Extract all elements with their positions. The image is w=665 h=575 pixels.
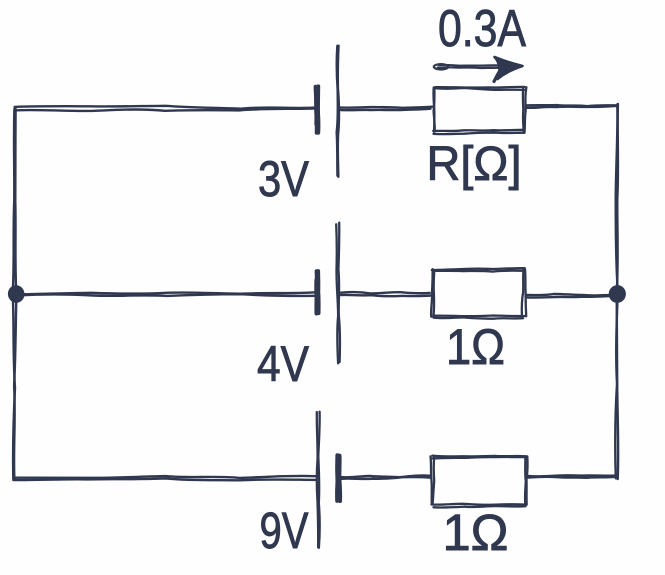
svg-text:R[Ω]: R[Ω]: [427, 138, 522, 191]
wire: top branch, battery V1 to resistor R1: [339, 107, 432, 111]
wire: top branch, left segment: [15, 106, 317, 111]
current direction arrow for I = 0.3 A: [434, 57, 523, 82]
resistor R1 body (rectangle): [433, 87, 526, 134]
wire: middle branch, battery V2 to resistor R2: [340, 292, 432, 296]
label: resistor R3 value 1&#937;: [443, 504, 509, 561]
resistor R3 body (rectangle): [431, 456, 528, 508]
junction node: left (left rail joins middle branch): [7, 284, 26, 304]
wire: bottom branch, battery V3 to resistor R3: [341, 475, 431, 479]
wire: bottom branch, left rail to battery V3: [13, 476, 316, 480]
wire: top branch, resistor R1 to right rail: [526, 105, 618, 108]
resistor R2 body (rectangle): [431, 268, 526, 319]
junction node: right (right rail joins middle branch): [608, 284, 627, 304]
svg-text:9V: 9V: [260, 502, 309, 559]
label: battery V3 value 9V: [260, 502, 309, 559]
svg-text:0.3A: 0.3A: [438, 0, 526, 58]
svg-text:1Ω: 1Ω: [443, 504, 509, 561]
svg-text:1Ω: 1Ω: [446, 319, 505, 375]
wire: middle branch, left node to battery V2: [17, 292, 316, 296]
label: resistor R1 value R[&#937;]: [427, 138, 522, 191]
label: battery V2 value 4V: [257, 336, 310, 392]
wire: left rail (top-left corner to bottom-left corner): [13, 109, 17, 480]
label: current value 0.3A: [438, 0, 526, 58]
label: battery V1 value 3V: [258, 151, 310, 207]
battery V2 (4V): short thick plate (left) and long thin plate (right): [316, 223, 340, 364]
label: resistor R2 value 1&#937;: [446, 319, 505, 375]
svg-text:3V: 3V: [258, 151, 310, 207]
wire: middle branch, resistor R2 to right node: [526, 294, 611, 298]
wire: bottom branch, resistor R3 to right rail: [528, 475, 617, 478]
wire: right rail (top-right corner to bottom-right corner): [615, 104, 618, 479]
svg-text:4V: 4V: [257, 336, 310, 392]
battery V1 (3V): short thick plate (left) and long thin plate (right): [316, 46, 340, 177]
battery V3 (9V): long thin plate (left) and short thick plate (right): [317, 412, 341, 548]
